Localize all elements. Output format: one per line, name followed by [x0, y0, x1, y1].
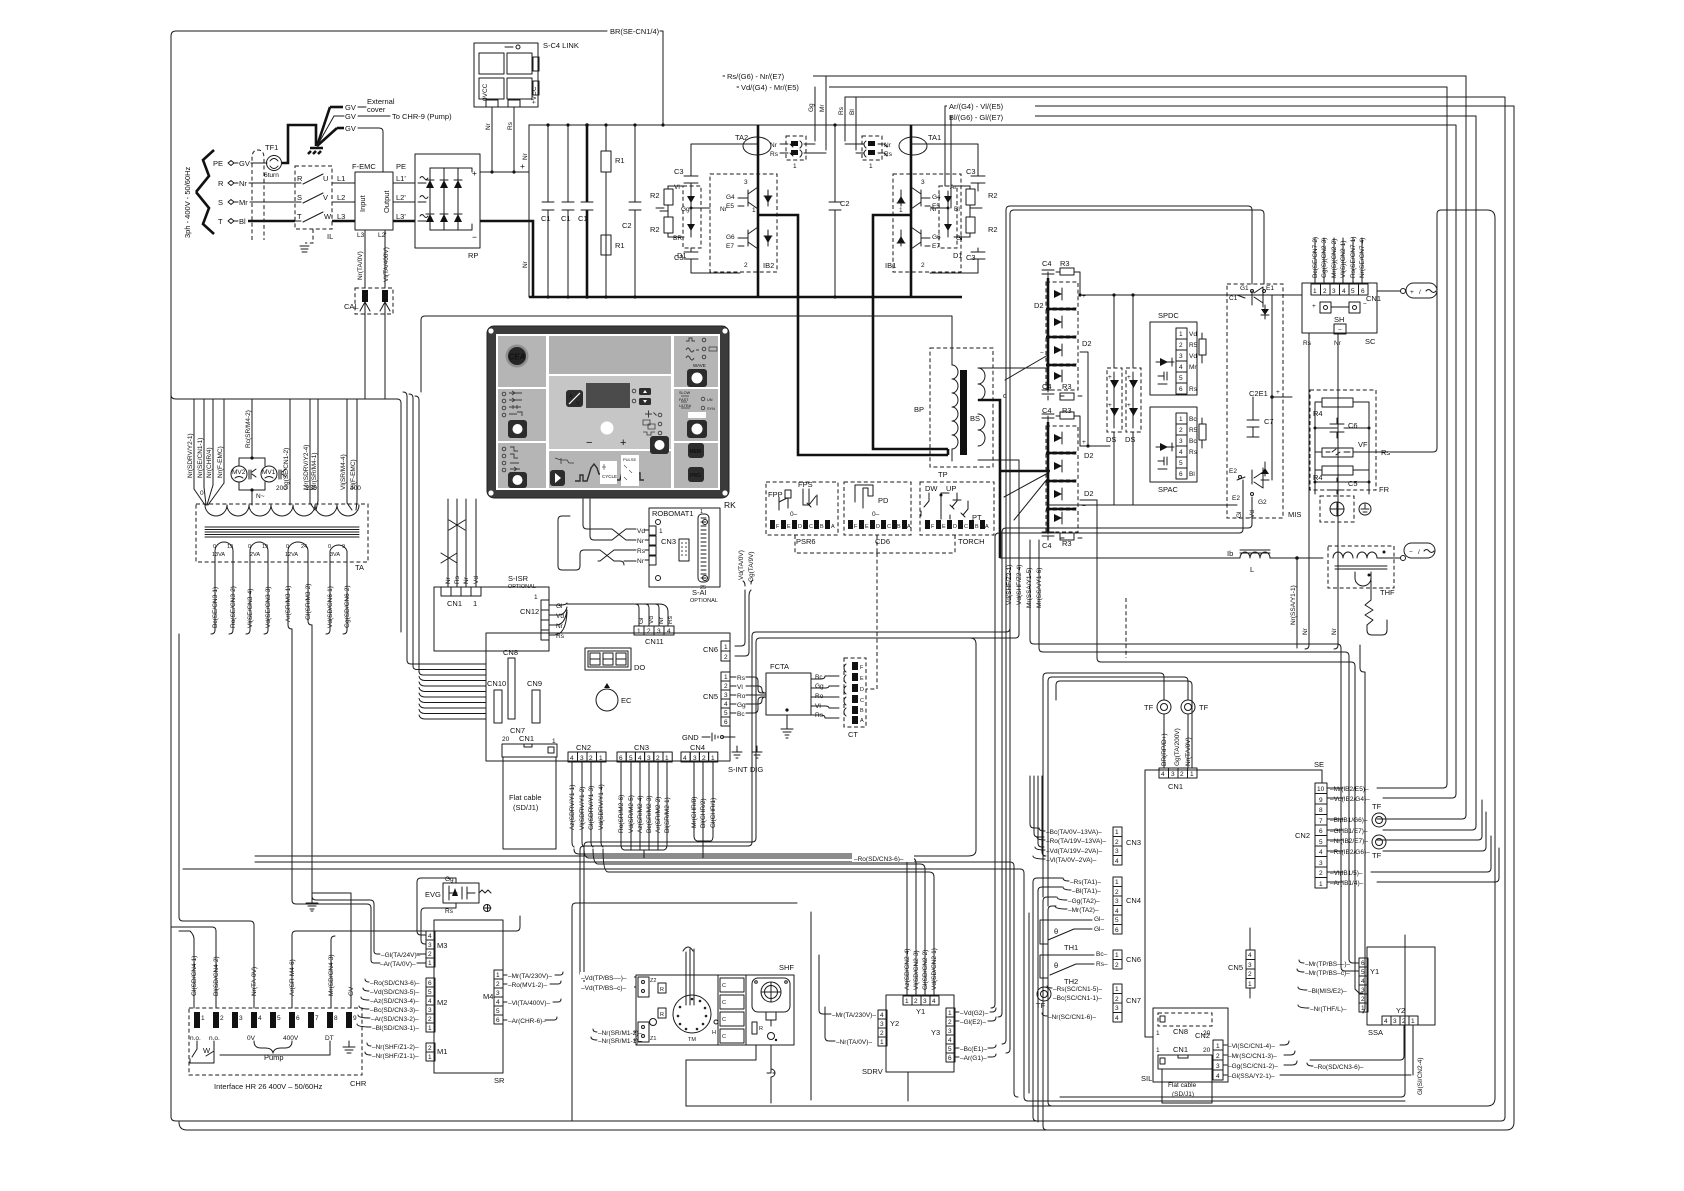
wire Rs Nr drops from SC [1302, 333, 1342, 645]
svg-text:MV1: MV1 [262, 469, 276, 476]
svg-text:PE: PE [213, 159, 223, 168]
svg-text:4: 4 [1179, 364, 1183, 371]
svg-text:Vd(TA/0V): Vd(TA/0V) [738, 550, 745, 580]
svg-text:–Ro(TA/19V–13VA)–: –Ro(TA/19V–13VA)– [1046, 838, 1106, 845]
svg-text:GV: GV [345, 124, 356, 133]
resistor R2 upper right [950, 184, 998, 211]
svg-text:T: T [218, 217, 223, 226]
svg-text:R: R [759, 1026, 763, 1032]
wire RP minus output [480, 221, 533, 297]
svg-text:+: + [1127, 402, 1131, 409]
svg-text:0–: 0– [872, 511, 880, 518]
svg-text:Rs: Rs [507, 121, 514, 130]
block SHF caps [718, 975, 746, 1045]
svg-text:4: 4 [496, 999, 500, 1006]
svg-text:S-ISR: S-ISR [508, 574, 529, 583]
svg-text:Gl–: Gl– [1094, 926, 1105, 933]
svg-text:IB1: IB1 [885, 261, 896, 270]
svg-text:–Ar(SD/CN3-2)–: –Ar(SD/CN3-2)– [371, 1016, 419, 1023]
wire TA primary drops [194, 399, 357, 510]
wire plus rail to SH [1088, 295, 1302, 540]
svg-text:Rs: Rs [637, 548, 646, 555]
wire Nr SSA drop [1290, 558, 1297, 648]
svg-text:(SD/J1): (SD/J1) [513, 803, 539, 812]
svg-text:–Bl(MIS/E2)–: –Bl(MIS/E2)– [1308, 988, 1347, 995]
svg-text:Nr: Nr [522, 260, 529, 268]
svg-text:1: 1 [659, 528, 663, 535]
svg-text:1: 1 [428, 960, 432, 967]
svg-text:+: + [520, 161, 525, 171]
svg-text:3: 3 [1319, 860, 1323, 867]
filter F-EMC [352, 162, 406, 239]
svg-text:9: 9 [342, 544, 345, 550]
wire ROBOMAT CN3 feeds [558, 499, 649, 570]
svg-text:Nr: Nr [445, 576, 452, 584]
svg-text:CN1: CN1 [1168, 782, 1183, 791]
svg-text:VF: VF [1358, 440, 1368, 449]
svg-text:CN1: CN1 [447, 599, 462, 608]
wire bottom border [171, 1117, 1505, 1121]
svg-text:M2: M2 [437, 998, 447, 1007]
svg-text:Vd(SD/CN2-1): Vd(SD/CN2-1) [931, 948, 938, 990]
svg-text:3: 3 [880, 1021, 884, 1028]
wire SHF enclosure [572, 903, 811, 1121]
svg-text:Y3: Y3 [931, 1028, 940, 1037]
svg-text:1: 1 [724, 674, 728, 681]
svg-text:3: 3 [239, 1015, 243, 1022]
svg-text:4: 4 [667, 628, 671, 635]
wire bottom bus long [686, 210, 1495, 1106]
connector CN7 right [1113, 984, 1141, 1022]
svg-text:Gg(S)(CN2-3): Gg(S)(CN2-3) [1321, 238, 1328, 278]
svg-text:400V: 400V [283, 1035, 299, 1042]
svg-text:R: R [218, 179, 224, 188]
svg-text:CAL: CAL [344, 302, 359, 311]
svg-text:Ar/(G4) - Vl/(E5): Ar/(G4) - Vl/(E5) [949, 102, 1004, 111]
svg-text:5: 5 [428, 989, 432, 996]
svg-text:200: 200 [276, 485, 287, 492]
svg-text:G4: G4 [932, 194, 941, 201]
svg-text:4: 4 [1115, 858, 1119, 865]
svg-text:–Nr(SR/M1-2)–: –Nr(SR/M1-2)– [598, 1030, 642, 1037]
svg-text:5: 5 [948, 1046, 952, 1053]
svg-text:Mr: Mr [1189, 364, 1197, 371]
svg-text:Bc(SE/CN7-2): Bc(SE/CN7-2) [1312, 237, 1319, 278]
svg-text:PE: PE [396, 162, 406, 171]
thermostat TH1 [1040, 920, 1092, 952]
svg-text:Vd: Vd [1189, 331, 1197, 338]
svg-text:Interface HR 26 400V – 50: Interface HR 26 400V – 50/60Hz [214, 1082, 323, 1091]
svg-text:–Rs(TA1)–: –Rs(TA1)– [1070, 879, 1101, 886]
wire CN3 drops [618, 762, 671, 858]
svg-text:E: E [787, 524, 791, 530]
svg-text:Rs–: Rs– [1096, 961, 1108, 968]
svg-text:6: 6 [1179, 471, 1183, 478]
connector CN3 EC [617, 743, 672, 762]
svg-text:−: − [1363, 301, 1367, 308]
svg-text:4: 4 [258, 1015, 262, 1022]
svg-text:–Vd(TP/BS––)–: –Vd(TP/BS––)– [581, 975, 627, 982]
svg-text:Nr: Nr [1302, 627, 1309, 635]
svg-text:D2: D2 [1084, 451, 1094, 460]
transformer TA [196, 485, 368, 572]
svg-text:CN2: CN2 [1295, 831, 1310, 840]
label S-INT DIG [728, 746, 764, 774]
cable ribbon to panel [407, 660, 486, 719]
svg-text:C5: C5 [1348, 479, 1358, 488]
svg-text:+: + [1410, 289, 1414, 296]
svg-text:2: 2 [948, 1019, 952, 1026]
svg-text:GV: GV [345, 112, 356, 121]
svg-text:4: 4 [932, 998, 936, 1005]
svg-text:–Mr(IB2/E5)–: –Mr(IB2/E5)– [1330, 786, 1369, 793]
svg-text:–Vl(SC/CN1-4)–: –Vl(SC/CN1-4)– [1228, 1043, 1275, 1050]
svg-text:C3: C3 [674, 253, 684, 262]
wire CN4 right feeds [1055, 878, 1105, 933]
svg-text:DO: DO [634, 663, 645, 672]
svg-text:Nr(TA/0V): Nr(TA/0V) [357, 251, 364, 280]
svg-text:B: B [975, 524, 979, 530]
svg-text:9: 9 [1319, 797, 1323, 804]
driver SPDC [1150, 311, 1206, 395]
svg-text:5: 5 [496, 1008, 500, 1015]
label interface CHR [214, 1079, 367, 1091]
svg-text:C: C [860, 698, 864, 704]
svg-text:W: W [203, 1046, 211, 1055]
svg-text:+: + [1082, 439, 1086, 446]
svg-text:Bc(SR/M2-3): Bc(SR/M2-3) [646, 795, 653, 833]
svg-text:–Mr(TA/230V)–: –Mr(TA/230V)– [832, 1012, 876, 1019]
svg-text:WAVE: WAVE [693, 363, 706, 368]
fuse TF pair top [1043, 673, 1209, 906]
svg-text:20: 20 [502, 736, 510, 743]
labels Vd TP BS feeds [580, 972, 634, 992]
wire CN4 right drops [1033, 878, 1062, 1130]
connector CN11 [634, 626, 674, 646]
wire bottom bus second [179, 1122, 1514, 1130]
svg-text:–Mr(TA2)–: –Mr(TA2)– [1068, 907, 1099, 914]
svg-text:Nr: Nr [485, 122, 492, 130]
svg-text:2: 2 [1402, 1018, 1406, 1025]
fuse TF right pair [1372, 802, 1386, 860]
svg-text:2: 2 [724, 654, 728, 661]
ground GND EC [682, 733, 735, 742]
svg-text:R2: R2 [650, 225, 660, 234]
svg-text:B: B [897, 524, 901, 530]
svg-text:1: 1 [1190, 771, 1194, 778]
diode stack D2 upper [1034, 259, 1092, 446]
svg-text:L2': L2' [396, 193, 406, 202]
label Gg node [656, 206, 710, 213]
svg-text:SH: SH [1334, 315, 1344, 324]
svg-text:Gg: Gg [815, 683, 824, 690]
svg-text:–Bl(SD/CN3-1)–: –Bl(SD/CN3-1)– [372, 1025, 419, 1032]
wire CN2 drops [569, 762, 605, 847]
svg-text:4: 4 [1319, 849, 1323, 856]
connector M4 [483, 970, 503, 1024]
svg-text:Bl(SR/M2-1): Bl(SR/M2-1) [664, 797, 671, 833]
connector CN2 SIL [1195, 1031, 1223, 1080]
svg-text:2: 2 [1115, 839, 1119, 846]
svg-text:2: 2 [914, 998, 918, 1005]
label GV external cover [330, 97, 395, 114]
svg-text:–Nr(SHF/Z1-2)–: –Nr(SHF/Z1-2)– [372, 1044, 419, 1051]
svg-text:–Vl(TA/0V–2VA)–: –Vl(TA/0V–2VA)– [1046, 857, 1097, 864]
svg-text:+: + [1082, 293, 1086, 300]
board SR [434, 920, 505, 1085]
svg-text:Z2: Z2 [650, 978, 656, 984]
svg-text:2: 2 [1115, 962, 1119, 969]
svg-text:–Nr(THF/L)–: –Nr(THF/L)– [1310, 1006, 1347, 1013]
svg-text:C1: C1 [561, 214, 571, 223]
svg-text:ULTRA: ULTRA [679, 404, 692, 408]
svg-text:+: + [1276, 389, 1280, 396]
svg-text:–Gg(TA2)–: –Gg(TA2)– [1068, 898, 1100, 905]
svg-text:Rc(SR/M4-2): Rc(SR/M4-2) [245, 410, 252, 448]
svg-text:–Mr(TA/230V)–: –Mr(TA/230V)– [508, 973, 552, 980]
svg-text:Y1: Y1 [916, 1007, 925, 1016]
svg-text:TA: TA [355, 563, 364, 572]
wire rectifier AC risers [1006, 460, 1043, 648]
wire IB1 output [873, 215, 948, 455]
connector CN1 SE [1159, 768, 1197, 791]
wire left return [179, 634, 183, 921]
svg-text:Rs: Rs [1381, 448, 1390, 457]
svg-text:–Ro(SD/CN3-6)–: –Ro(SD/CN3-6)– [854, 856, 904, 863]
svg-text:7: 7 [1319, 818, 1323, 825]
svg-text:CN1: CN1 [1173, 1045, 1188, 1054]
svg-text:Rs: Rs [737, 675, 746, 682]
svg-text:Rs: Rs [454, 575, 461, 584]
svg-text:SPDC: SPDC [1158, 311, 1179, 320]
svg-text:n.o.: n.o. [209, 1035, 220, 1042]
svg-text:1: 1 [905, 998, 909, 1005]
svg-text:2: 2 [1179, 427, 1183, 434]
svg-text:M4: M4 [483, 992, 493, 1001]
svg-text:TF: TF [1372, 851, 1382, 860]
svg-text:Vd: Vd [473, 576, 480, 584]
svg-text:−: − [1082, 503, 1086, 510]
svg-text:Rs: Rs [815, 712, 824, 719]
ground external cover flag [308, 148, 323, 154]
node BR(SE-CN1/4) [610, 27, 665, 127]
svg-text:2: 2 [1319, 870, 1323, 877]
svg-text:C4: C4 [1042, 259, 1052, 268]
svg-text:–Bc(TA/0V–13VA)–: –Bc(TA/0V–13VA)– [1046, 829, 1102, 836]
svg-text:4: 4 [570, 755, 574, 762]
svg-text:Gl(SR/M3-2): Gl(SR/M3-2) [305, 584, 312, 620]
svg-text:24: 24 [301, 544, 307, 550]
svg-text:2: 2 [589, 755, 593, 762]
board SE [1145, 760, 1324, 1037]
svg-text:Flat cable: Flat cable [1168, 1082, 1197, 1089]
wire CN2 SE outputs [1327, 784, 1499, 887]
svg-text:Gg(SE/CN1-2): Gg(SE/CN1-2) [283, 448, 290, 490]
svg-text:R3: R3 [1062, 539, 1072, 548]
filter THF dashed [1328, 546, 1395, 635]
svg-text:OPTIONAL: OPTIONAL [690, 598, 718, 604]
svg-text:1: 1 [1216, 1043, 1220, 1050]
cable flat SD J1 [503, 757, 556, 849]
svg-text:–Ro(SD/CN3-6)–: –Ro(SD/CN3-6)– [1314, 1064, 1364, 1071]
filter FR dashed [1310, 210, 1441, 494]
svg-text:4: 4 [880, 1012, 884, 1019]
svg-text:2: 2 [656, 755, 660, 762]
svg-text:+: + [1127, 374, 1131, 381]
svg-text:Rs: Rs [1303, 340, 1312, 347]
labels CN1 risers [1312, 236, 1366, 283]
svg-text:R5: R5 [1189, 427, 1198, 434]
svg-text:–Vl(TA/400V)–: –Vl(TA/400V)– [508, 1000, 551, 1007]
svg-text:E1: E1 [1266, 285, 1274, 292]
label wire Rs G6 Nr E7 [725, 70, 813, 81]
svg-text:4: 4 [1342, 288, 1346, 295]
connector CN2 SE [1295, 783, 1327, 888]
svg-text:R1: R1 [615, 156, 625, 165]
svg-text:Y2: Y2 [890, 1019, 899, 1028]
svg-text:C: C [722, 1034, 726, 1040]
wire MIS G1 net [1006, 210, 1264, 1053]
wire RP plus output [480, 125, 529, 172]
svg-text:1: 1 [700, 509, 703, 515]
svg-text:Vl(SR/M4-4): Vl(SR/M4-4) [340, 454, 347, 490]
svg-text:Vd: Vd [648, 616, 655, 624]
svg-text:Mr(SSA/Y1-6): Mr(SSA/Y1-6) [1036, 568, 1043, 608]
svg-text:CN3: CN3 [634, 743, 649, 752]
svg-text:–Bc(SD/CN3-3)–: –Bc(SD/CN3-3)– [370, 1007, 419, 1014]
svg-text:C: C [722, 983, 726, 989]
svg-text:Mr(CHR/8): Mr(CHR/8) [691, 797, 698, 828]
pickup TA1 dashed [845, 136, 893, 170]
svg-text:1: 1 [1319, 881, 1323, 888]
wire MIS G2 net [991, 508, 1243, 1008]
svg-text:C: C [887, 524, 891, 530]
svg-text:GND: GND [682, 733, 699, 742]
connector Y1 SDRV [903, 996, 939, 1016]
svg-text:DIG: DIG [750, 765, 764, 774]
link S-C4 [474, 41, 579, 107]
svg-text:TORCH: TORCH [958, 537, 985, 546]
svg-text:FCTA: FCTA [770, 662, 789, 671]
svg-text:Bc: Bc [1189, 438, 1197, 445]
svg-text:U: U [323, 174, 328, 183]
connector CN1 flat EC [502, 734, 557, 757]
svg-text:+: + [620, 437, 626, 449]
svg-text:Nr(TA/0V): Nr(TA/0V) [1185, 737, 1192, 766]
shunt SC block [1302, 283, 1381, 346]
svg-text:FR: FR [1379, 485, 1390, 494]
svg-text:cover: cover [367, 105, 386, 114]
svg-text:Bl/(G6) - Gl/(E7): Bl/(G6) - Gl/(E7) [949, 113, 1004, 122]
svg-text:A: A [907, 524, 911, 530]
svg-text:–Gl(IB1/E7)–: –Gl(IB1/E7)– [1330, 828, 1368, 835]
svg-text:TF: TF [1144, 703, 1154, 712]
encoder EC [596, 683, 632, 711]
svg-text:1: 1 [201, 1015, 205, 1022]
wire minus bottom rail [1048, 504, 1237, 506]
svg-text:400: 400 [350, 485, 361, 492]
svg-text:–Bl(TA1)–: –Bl(TA1)– [1072, 888, 1101, 895]
wire CN3 right risers [1030, 776, 1046, 856]
svg-text:Mr(SD/CN4-3): Mr(SD/CN4-3) [328, 954, 335, 996]
svg-text:SLOW: SLOW [679, 391, 691, 395]
igbt MIS dashed [1227, 284, 1301, 519]
svg-text:19: 19 [227, 544, 233, 550]
svg-text:Ro(SR/M2-6): Ro(SR/M2-6) [618, 795, 625, 833]
svg-text:Y2: Y2 [1396, 1006, 1405, 1015]
svg-text:Ib: Ib [1227, 549, 1233, 558]
svg-text:1: 1 [1156, 1030, 1160, 1037]
board SDRV [862, 995, 954, 1076]
capacitor C1 c [578, 123, 593, 299]
svg-text:3: 3 [657, 628, 661, 635]
svg-text:V: V [323, 193, 328, 202]
svg-text:6: 6 [948, 1055, 952, 1062]
wire Y2 SSA drops [1307, 1025, 1424, 1095]
svg-text:−: − [472, 232, 477, 242]
svg-text:2: 2 [1115, 889, 1119, 896]
svg-text:Ar(SR-M4-6): Ar(SR-M4-6) [289, 959, 296, 996]
svg-text:θ: θ [1054, 927, 1058, 936]
svg-text:C: C [722, 1000, 726, 1006]
svg-text:G6: G6 [932, 234, 941, 241]
svg-text:5: 5 [1179, 460, 1183, 467]
svg-text:C2E1: C2E1 [1249, 389, 1268, 398]
svg-text:1: 1 [724, 644, 728, 651]
svg-text:8: 8 [1319, 807, 1323, 814]
wire SHF Z1 feeds [591, 1029, 642, 1045]
svg-text:1: 1 [1361, 1005, 1365, 1012]
svg-text:A: A [860, 718, 864, 724]
wire CN7 feeds [1036, 986, 1103, 1021]
svg-text:0: 0 [213, 544, 216, 550]
svg-text:2: 2 [1180, 771, 1184, 778]
svg-text:F-EMC: F-EMC [352, 162, 376, 171]
svg-text:FPS: FPS [798, 480, 813, 489]
svg-text:–Ar(G1)–: –Ar(G1)– [960, 1055, 987, 1062]
svg-text:E: E [860, 676, 864, 682]
svg-text:D: D [798, 524, 802, 530]
svg-text:Pump: Pump [264, 1053, 284, 1062]
wire Nr column [522, 125, 529, 297]
svg-text:Mr: Mr [239, 198, 248, 207]
control panel RK [487, 326, 729, 498]
svg-text:Output: Output [382, 190, 391, 213]
svg-text:Vl: Vl [674, 184, 680, 191]
svg-text:−: − [1040, 350, 1044, 357]
svg-text:F: F [860, 665, 864, 671]
svg-text:CN2: CN2 [1195, 1031, 1210, 1040]
svg-text:DS: DS [1106, 435, 1116, 444]
svg-text:3: 3 [1179, 438, 1183, 445]
svg-text:3: 3 [1216, 1063, 1220, 1070]
svg-text:Vd(SR/M2-5): Vd(SR/M2-5) [628, 795, 635, 833]
svg-text:230: 230 [306, 485, 317, 492]
wire bus SDRV link 1 [574, 849, 907, 947]
label GV pump [334, 112, 452, 121]
wire CHR feeds [171, 893, 520, 1008]
svg-text:5: 5 [629, 755, 633, 762]
svg-text:Bl: Bl [849, 109, 856, 115]
svg-text:L2: L2 [337, 193, 345, 202]
svg-text:Bl: Bl [239, 217, 246, 226]
svg-text:Bl(CHR/2): Bl(CHR/2) [700, 798, 707, 828]
labels CHR feeds [191, 954, 355, 996]
svg-text:1: 1 [637, 628, 641, 635]
wire CN2 SIL outputs [1223, 1041, 1411, 1080]
svg-text:1: 1 [1115, 879, 1119, 886]
svg-text:5: 5 [724, 710, 728, 717]
